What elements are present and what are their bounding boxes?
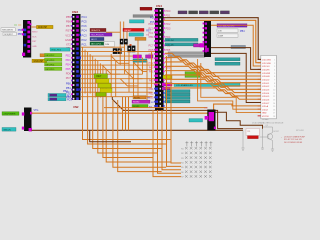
svg-text:PB4: PB4	[149, 36, 154, 39]
J1 pins magenta	[27, 21, 30, 24]
svg-text:LCD-D4: LCD-D4	[166, 40, 174, 42]
resistor R9 red body	[248, 136, 259, 139]
svg-text:LCD-D7: LCD-D7	[262, 103, 270, 105]
svg-text:CN3: CN3	[72, 10, 78, 14]
svg-text:PB5: PB5	[66, 15, 71, 19]
svg-text:KEY-PD3: KEY-PD3	[46, 60, 56, 62]
svg-text:SCL-PC5-I2C: SCL-PC5-I2C	[91, 35, 104, 37]
CN5 purple pill left	[194, 44, 200, 47]
net label cyan PD0	[50, 48, 70, 51]
svg-text:PB5: PB5	[166, 49, 171, 52]
net pill orange tiny	[40, 54, 45, 57]
CN4 pin grid	[156, 10, 158, 13]
svg-text:CN2: CN2	[73, 105, 79, 109]
pin mark red S2	[130, 44, 132, 46]
svg-text:ROW2: ROW2	[133, 102, 140, 104]
net box navy	[90, 37, 104, 40]
svg-text:2: 2	[274, 63, 275, 65]
svg-text:R5: R5	[181, 167, 183, 169]
svg-text:17: 17	[273, 113, 275, 115]
wire staircase to CN6	[165, 53, 261, 72]
keypad matrix grid	[185, 141, 212, 177]
svg-text:Q5 BC557 CHARGE PUMP: Q5 BC557 CHARGE PUMP	[284, 136, 306, 139]
wire brown corner mid	[214, 112, 262, 129]
net label green POWER	[2, 112, 19, 116]
svg-text:10: 10	[273, 89, 275, 91]
svg-text:LCD-K: LCD-K	[262, 109, 269, 111]
wire orange bus top2	[164, 20, 261, 62]
svg-text:ADC1-PC1: ADC1-PC1	[91, 43, 102, 46]
wire orange horizontal 108	[104, 107, 207, 109]
net boxes magenta left	[162, 83, 172, 86]
svg-text:KEY-PD4: KEY-PD4	[46, 64, 56, 66]
net pill magenta low	[132, 100, 150, 103]
svg-text:LCD-ENABLE-RS: LCD-ENABLE-RS	[176, 84, 193, 87]
svg-text:PD3: PD3	[66, 59, 71, 62]
svg-text:ADC2: ADC2	[91, 38, 97, 41]
svg-text:PD3: PD3	[166, 27, 171, 30]
wire brown pair mid	[211, 48, 261, 70]
wire VCC long	[32, 104, 261, 113]
svg-text:LCD-A: LCD-A	[262, 105, 269, 108]
connector CN6 body	[261, 55, 277, 119]
svg-text:SDA-PC4: SDA-PC4	[91, 29, 101, 32]
svg-text:R3: R3	[181, 158, 183, 160]
svg-text:VCC5V: VCC5V	[262, 116, 269, 118]
svg-text:9: 9	[274, 86, 275, 88]
button S1 pads	[113, 48, 117, 54]
svg-text:5V BIAS: 5V BIAS	[262, 118, 269, 121]
wire brown mid diagonal	[112, 97, 243, 129]
connector CN4 body	[155, 8, 164, 110]
CN5 magenta pad left	[200, 43, 205, 47]
net pills cyan pair	[48, 94, 66, 97]
svg-text:14: 14	[273, 103, 275, 105]
svg-text:KEY-PD2: KEY-PD2	[46, 55, 56, 57]
svg-text:AVR-ISP: AVR-ISP	[38, 26, 47, 29]
net bar cyan RXD	[130, 20, 145, 23]
svg-text:KEY: KEY	[97, 75, 102, 78]
CN7 pins	[22, 112, 25, 115]
net bar cyan TXD	[129, 33, 144, 36]
svg-text:←: ←	[281, 137, 283, 139]
value box J1-B	[3, 32, 16, 35]
svg-text:PB1: PB1	[149, 88, 154, 91]
net bars teal pair upper	[165, 38, 198, 41]
svg-text:PD2: PD2	[166, 23, 171, 26]
net label cyan GND	[2, 128, 16, 132]
svg-text:ROW1: ROW1	[134, 97, 141, 99]
svg-text:PB0: PB0	[66, 81, 71, 85]
svg-text:LCD-D5: LCD-D5	[166, 44, 174, 46]
svg-text:LCD-VSS: LCD-VSS	[262, 60, 271, 62]
svg-text:LCD-D0: LCD-D0	[262, 80, 270, 82]
net box chain GND row	[178, 11, 187, 14]
wire mesh diagonals	[102, 65, 120, 74]
svg-text:SIP3 HDR: SIP3 HDR	[296, 130, 305, 132]
net box purple SCL	[90, 33, 112, 36]
RV1 magenta pads	[205, 116, 209, 120]
wire bundle bottom-left	[83, 100, 171, 140]
svg-text:PC1: PC1	[82, 42, 88, 46]
wire mesh verticals	[82, 47, 84, 100]
svg-text:3: 3	[274, 66, 275, 68]
svg-text:MISO: MISO	[32, 32, 38, 34]
svg-text:CN4: CN4	[156, 4, 162, 8]
value box J1-A	[1, 28, 15, 31]
net box dark red SDA	[90, 28, 106, 31]
svg-text:100R: 100R	[218, 36, 224, 38]
resistor R9 value box	[246, 129, 260, 136]
svg-text:LCD-VO: LCD-VO	[262, 66, 270, 68]
net box dark green	[90, 42, 108, 45]
net pill cyan contrast	[189, 119, 203, 122]
net bar gray-blue right	[231, 45, 246, 48]
svg-text:1X16 CHARACTER LCD MODULE: 1X16 CHARACTER LCD MODULE	[252, 122, 284, 125]
CN6 pin rows	[258, 58, 261, 60]
net label yellow GND	[32, 59, 47, 62]
svg-text:13: 13	[273, 99, 275, 101]
svg-text:R1: R1	[181, 148, 183, 150]
button S2 pads	[127, 46, 131, 53]
svg-text:GND-ISP: GND-ISP	[34, 61, 44, 63]
svg-text:12: 12	[273, 96, 275, 98]
svg-text:PB7: PB7	[66, 24, 71, 28]
value box 16MHz	[104, 42, 115, 47]
trimmer RV1 body	[207, 110, 215, 131]
net bar teal mid	[133, 59, 147, 62]
svg-text:PD2: PD2	[66, 54, 71, 57]
wire brown bottom elbow	[90, 130, 131, 142]
svg-text:PD1: PD1	[166, 14, 171, 17]
svg-text:16M: 16M	[105, 44, 109, 46]
svg-text:LCD-D5: LCD-D5	[262, 96, 270, 98]
svg-text:5: 5	[274, 73, 275, 75]
wire orange elbow right mid	[198, 59, 261, 109]
svg-text:Q5: Q5	[266, 125, 268, 127]
value box R3	[217, 29, 238, 32]
svg-text:16: 16	[273, 109, 275, 111]
svg-text:PB2: PB2	[149, 92, 154, 95]
svg-text:4: 4	[274, 70, 275, 72]
net labels green PD2-PD5	[45, 53, 62, 56]
svg-text:LCD-D2: LCD-D2	[262, 86, 270, 88]
svg-text:MISO|MOSI: MISO|MOSI	[2, 30, 13, 32]
net bar red RESET	[123, 28, 144, 31]
net pill green low	[132, 105, 148, 108]
net bars teal quad bottom	[165, 90, 190, 93]
net pill yellow sel	[163, 75, 172, 79]
net cluster green yellow	[94, 74, 108, 78]
svg-text:GND-IN: GND-IN	[3, 129, 11, 131]
svg-text:PD4: PD4	[66, 63, 71, 66]
svg-text:PC7: PC7	[149, 45, 154, 48]
svg-text:PC4: PC4	[82, 29, 88, 33]
wire mid verticals long	[122, 97, 124, 130]
svg-text:VCC: VCC	[65, 33, 71, 37]
svg-text:7: 7	[274, 80, 275, 82]
svg-text:PC5: PC5	[82, 20, 88, 24]
svg-text:R4: R4	[181, 163, 183, 165]
pump circuit wires	[241, 127, 274, 151]
svg-text:PC6: PC6	[82, 24, 88, 28]
net bars gray pair	[168, 52, 205, 54]
svg-text:PD5: PD5	[66, 68, 71, 71]
svg-text:6: 6	[274, 76, 275, 78]
svg-text:RXD-PD0: RXD-PD0	[52, 50, 62, 52]
svg-text:LCD-RW: LCD-RW	[262, 73, 270, 75]
svg-text:PC3: PC3	[82, 33, 88, 37]
svg-text:LCD-D3: LCD-D3	[262, 89, 270, 91]
net bar dark red PD0	[140, 7, 152, 10]
svg-text:XT2: XT2	[66, 42, 71, 46]
wire crystal verticals	[119, 22, 121, 39]
wire J1 to label	[31, 26, 36, 28]
RV1 magenta core	[209, 112, 214, 121]
CN3 pin grid	[73, 16, 74, 18]
J1 pin pad right	[30, 23, 32, 25]
svg-text:GND: GND	[32, 46, 37, 48]
value box R4	[217, 34, 238, 37]
net box purple long	[217, 24, 247, 27]
CN5 pins	[203, 23, 205, 25]
net pill orange	[135, 37, 146, 40]
svg-text:R2: R2	[181, 153, 183, 155]
svg-text:RESET: RESET	[124, 30, 132, 32]
wire GND long brown	[32, 129, 244, 131]
connector J1 body	[23, 20, 31, 58]
svg-text:15: 15	[273, 106, 275, 108]
svg-text:8: 8	[274, 83, 275, 85]
svg-text:PB4: PB4	[240, 30, 245, 33]
svg-text:+5V-POWER: +5V-POWER	[3, 114, 16, 116]
wire orange bus top3	[211, 25, 261, 66]
svg-text:PC6: PC6	[150, 16, 155, 19]
svg-text:PD1: PD1	[67, 98, 72, 101]
net label yellow AVRISP	[37, 25, 54, 28]
wire brown bus top	[164, 18, 261, 60]
svg-text:PB6: PB6	[66, 20, 71, 24]
svg-text:GND: GND	[65, 38, 71, 42]
connector CN5 body	[204, 21, 211, 57]
svg-text:1: 1	[274, 60, 275, 62]
svg-text:LCD-D6: LCD-D6	[262, 99, 270, 101]
net bars teal pair right	[215, 58, 240, 61]
svg-text:PC2: PC2	[82, 38, 88, 42]
svg-text:R6: R6	[181, 172, 183, 174]
net bar cyan long	[174, 83, 240, 86]
svg-text:PB4: PB4	[63, 90, 68, 93]
svg-text:LCD-VDD: LCD-VDD	[262, 63, 271, 65]
wire mesh horizontals	[81, 46, 125, 48]
svg-text:R11: R11	[247, 131, 250, 133]
svg-text:PD6: PD6	[66, 71, 72, 75]
svg-text:SCK: SCK	[32, 36, 37, 38]
svg-text:PC5: PC5	[150, 21, 155, 24]
svg-text:LCD-EN: LCD-EN	[262, 76, 270, 78]
net blob green	[185, 72, 200, 78]
svg-text:LCD-RS: LCD-RS	[262, 70, 270, 72]
svg-text:18: 18	[273, 116, 275, 118]
svg-text:RST: RST	[146, 31, 151, 33]
svg-text:10K: 10K	[218, 31, 222, 33]
svg-text:LCD-D1: LCD-D1	[262, 83, 270, 85]
wire keypad feeders	[153, 110, 181, 177]
svg-text:SCK|RST: SCK|RST	[4, 34, 13, 36]
svg-text:PD7: PD7	[66, 76, 72, 80]
svg-text:KEY-PD5: KEY-PD5	[46, 69, 56, 71]
net bar gray	[133, 15, 153, 18]
net boxes magenta mid	[133, 55, 142, 58]
connector CN7 body	[24, 108, 32, 132]
svg-text:LCD-D4: LCD-D4	[262, 93, 270, 95]
svg-text:PD0: PD0	[166, 10, 171, 13]
svg-text:TX: TX	[146, 35, 149, 37]
svg-text:D4 D5 1N4148 DIODES: D4 D5 1N4148 DIODES	[284, 142, 303, 144]
svg-text:BC557: BC557	[274, 131, 280, 133]
connector CN3 body	[72, 14, 81, 100]
J1 pin pad bottom-left	[22, 53, 25, 56]
crystal Q1 pads	[120, 39, 124, 45]
svg-text:GND: GND	[262, 113, 267, 115]
svg-text:PD0: PD0	[67, 94, 72, 97]
svg-text:R7: R7	[181, 177, 183, 178]
net pill orange low	[133, 96, 146, 99]
misc tint marks	[14, 24, 17, 26]
svg-text:RST: RST	[66, 29, 72, 33]
svg-text:11: 11	[273, 93, 275, 95]
svg-text:VTG: VTG	[34, 109, 39, 112]
svg-text:PC4: PC4	[82, 15, 88, 19]
